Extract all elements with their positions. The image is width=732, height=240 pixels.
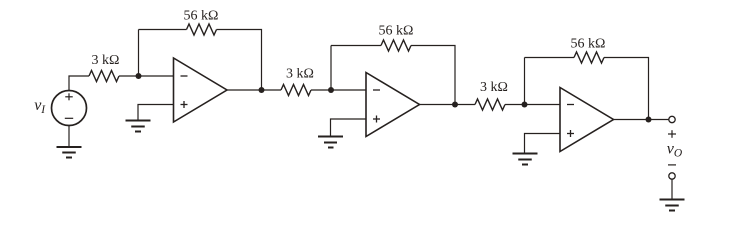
svg-text:3 kΩ: 3 kΩ — [286, 67, 314, 82]
wire: U1 output to R2 — [227, 89, 281, 91]
output minus sign — [668, 164, 676, 166]
op-amp U2 — [366, 73, 420, 137]
wire: R2 to U2 inverting input — [311, 89, 366, 91]
feedback wire F1: up from node A — [138, 30, 140, 77]
resistor RF3 56 kOhm — [574, 52, 604, 63]
wire: U3 noninverting input to ground stub — [525, 134, 561, 154]
ground G1 (U1 + input) — [126, 121, 151, 132]
voltage source minus sign — [65, 117, 73, 119]
ground G4 (output) — [660, 200, 685, 211]
svg-text:3 kΩ: 3 kΩ — [92, 53, 120, 68]
wire: source bottom to ground — [68, 126, 70, 147]
U1 inverting input minus symbol — [181, 75, 188, 77]
svg-text:3 kΩ: 3 kΩ — [480, 80, 508, 95]
output terminal (lower, open circle) — [669, 173, 675, 179]
feedback wire F3: top right segment and down to U3 output — [604, 58, 649, 120]
op-amp U1 — [174, 58, 228, 122]
ground G2 (U2 + input) — [318, 137, 343, 148]
voltage source VI circle — [52, 91, 87, 126]
output terminal (upper, open circle) — [669, 116, 675, 122]
U3 noninverting input plus symbol — [567, 130, 574, 137]
node D junction dot (U2 output / F2) — [452, 102, 458, 108]
voltage source plus sign — [65, 93, 73, 100]
op-amp U3 — [560, 88, 614, 152]
wire: lower terminal to output ground — [671, 179, 673, 199]
feedback wire F3: up from node E — [524, 58, 526, 105]
feedback wire F1: top left segment — [139, 29, 187, 31]
feedback wire F2: top right segment and down to U2 output — [411, 46, 455, 105]
resistor RF1 56 kOhm — [187, 24, 217, 35]
wire: U3 output to output terminal — [614, 119, 669, 121]
output plus sign — [668, 130, 676, 138]
U2 inverting input minus symbol — [373, 89, 380, 91]
wire: R3 to U3 inverting input — [505, 104, 560, 106]
U3 inverting input minus symbol — [567, 104, 574, 106]
feedback wire F1: top right segment and down to U1 output — [217, 30, 262, 91]
node C junction dot (U2 inverting input) — [328, 87, 334, 93]
ground G3 (U3 + input) — [513, 154, 538, 165]
node A junction dot — [136, 73, 142, 79]
wire: source top up and right to R1 — [69, 76, 89, 91]
node B junction dot (U1 output / F1) — [259, 87, 265, 93]
resistor RF2 56 kOhm — [381, 40, 411, 51]
wire: U1 noninverting input to ground stub — [138, 105, 174, 121]
resistor R2 3 kOhm — [281, 85, 311, 96]
wire: U2 output to R3 — [420, 104, 476, 106]
resistor R1 3 kOhm — [89, 71, 119, 82]
svg-text:56 kΩ: 56 kΩ — [571, 37, 606, 52]
wire: R1 to U1 inverting input — [119, 75, 174, 77]
resistor R3 3 kOhm — [475, 99, 505, 110]
svg-text:56 kΩ: 56 kΩ — [379, 24, 414, 39]
wire: U2 noninverting input to ground stub — [331, 119, 367, 136]
U1 noninverting input plus symbol — [181, 101, 188, 108]
node E junction dot (U3 inverting input) — [522, 102, 528, 108]
U2 noninverting input plus symbol — [373, 116, 380, 123]
svg-text:56 kΩ: 56 kΩ — [184, 9, 219, 24]
node F junction dot (U3 output / F3) — [646, 117, 652, 123]
feedback wire F2: top left segment — [331, 45, 381, 47]
ground (source) — [57, 147, 82, 158]
feedback wire F3: top left segment — [525, 57, 575, 59]
feedback wire F2: up from node C — [330, 46, 332, 91]
